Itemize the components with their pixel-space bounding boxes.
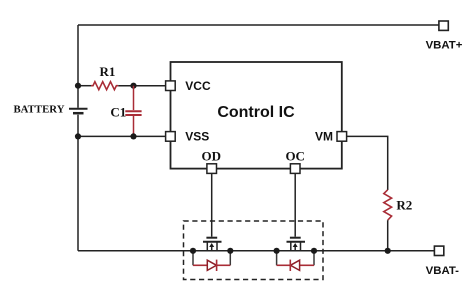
svg-text:VBAT-: VBAT- xyxy=(426,265,460,277)
svg-text:BATTERY: BATTERY xyxy=(13,104,64,116)
junction node battery/R1 xyxy=(75,83,81,89)
svg-text:VM: VM xyxy=(315,130,333,144)
wire bottom rail xyxy=(78,250,434,252)
terminal VBAT- pad xyxy=(434,246,443,255)
wire R1 to VCC pin xyxy=(118,85,165,87)
wire VM to R2 top xyxy=(347,136,388,190)
svg-text:VBAT+: VBAT+ xyxy=(426,40,463,52)
wire battery node to R1 xyxy=(78,85,91,87)
svg-text:OD: OD xyxy=(202,148,222,163)
svg-text:VCC: VCC xyxy=(185,79,211,93)
junction node FET2 right xyxy=(311,248,317,254)
junction node left/VSS xyxy=(75,133,81,139)
resistor R1 xyxy=(91,82,118,90)
pin OC xyxy=(290,164,300,174)
svg-text:C1: C1 xyxy=(110,104,126,119)
junction node FET1 right xyxy=(227,248,233,254)
junction node R2/rail xyxy=(385,248,391,254)
transistor Q2 xyxy=(287,173,306,250)
transistor Q1 xyxy=(203,173,222,250)
junction node FET2 left xyxy=(274,248,280,254)
svg-text:R2: R2 xyxy=(396,197,412,212)
svg-text:Control IC: Control IC xyxy=(217,104,295,121)
svg-text:R1: R1 xyxy=(100,64,116,79)
terminal VBAT+ pad xyxy=(439,21,448,30)
pin VM xyxy=(337,132,347,142)
dashed FET enclosure xyxy=(184,221,324,280)
body diode D1 xyxy=(193,251,230,271)
junction node R1/C1 xyxy=(130,83,136,89)
op-amp U1 Control IC box xyxy=(171,62,342,169)
resistor R2 xyxy=(384,190,392,220)
body diode D2 xyxy=(277,251,314,271)
wire VSS row xyxy=(78,135,166,137)
capacitor C1 xyxy=(125,86,141,137)
pin OD xyxy=(207,164,217,174)
pin VSS xyxy=(166,132,176,142)
junction node C1/VSS xyxy=(130,133,136,139)
svg-text:VSS: VSS xyxy=(185,130,209,144)
svg-text:OC: OC xyxy=(285,148,305,163)
pin VCC xyxy=(166,81,176,91)
wire left vertical lower xyxy=(77,115,79,251)
battery BT1 xyxy=(69,109,88,114)
wire top rail xyxy=(78,24,439,26)
junction node FET1 left xyxy=(190,248,196,254)
wire left vertical upper xyxy=(77,25,79,108)
wire R2 bottom to rail xyxy=(387,220,389,251)
